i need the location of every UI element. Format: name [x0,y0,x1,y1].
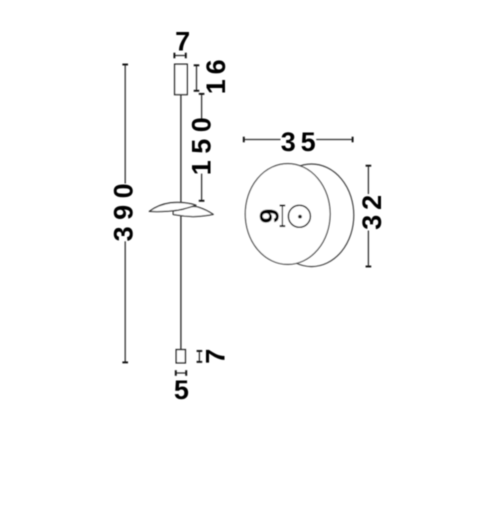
svg-text:9: 9 [255,208,285,223]
dimension line 7 (top) [174,55,185,57]
bottom LED cylinder rectangle [176,350,185,363]
dimension line 9 [281,206,283,227]
dimension line 16 [196,65,198,91]
svg-text:390: 390 [109,183,139,241]
dimension line 32 [367,166,369,267]
back disc ellipse [269,164,354,267]
svg-text:5: 5 [174,375,189,405]
dimension line 35 [244,139,353,141]
canopy rectangle [175,64,188,94]
wire upper segment [180,95,182,203]
inner hub circle [288,205,310,227]
dimension line 7 (bottom) [198,351,200,362]
wire lower segment [180,215,182,349]
dimension line 5 [176,372,186,374]
svg-text:7: 7 [201,349,231,364]
svg-text:7: 7 [175,27,190,57]
shade lower disc [173,206,213,216]
hub center dot [298,215,302,219]
shade upper disc [149,202,196,211]
front disc ellipse [245,164,330,265]
dimension line 150 [201,94,203,201]
dimension line 390 [124,65,126,363]
svg-text:150: 150 [187,117,217,175]
